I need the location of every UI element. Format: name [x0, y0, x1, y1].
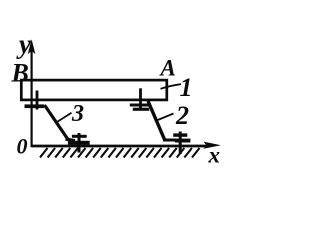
svg-text:A: A: [159, 56, 176, 81]
svg-text:0: 0: [17, 134, 28, 159]
svg-text:1: 1: [180, 73, 193, 102]
svg-text:B: B: [11, 59, 29, 88]
svg-text:3: 3: [71, 101, 84, 127]
svg-text:y: y: [16, 29, 32, 59]
svg-text:x: x: [208, 143, 221, 168]
svg-text:2: 2: [175, 101, 189, 130]
